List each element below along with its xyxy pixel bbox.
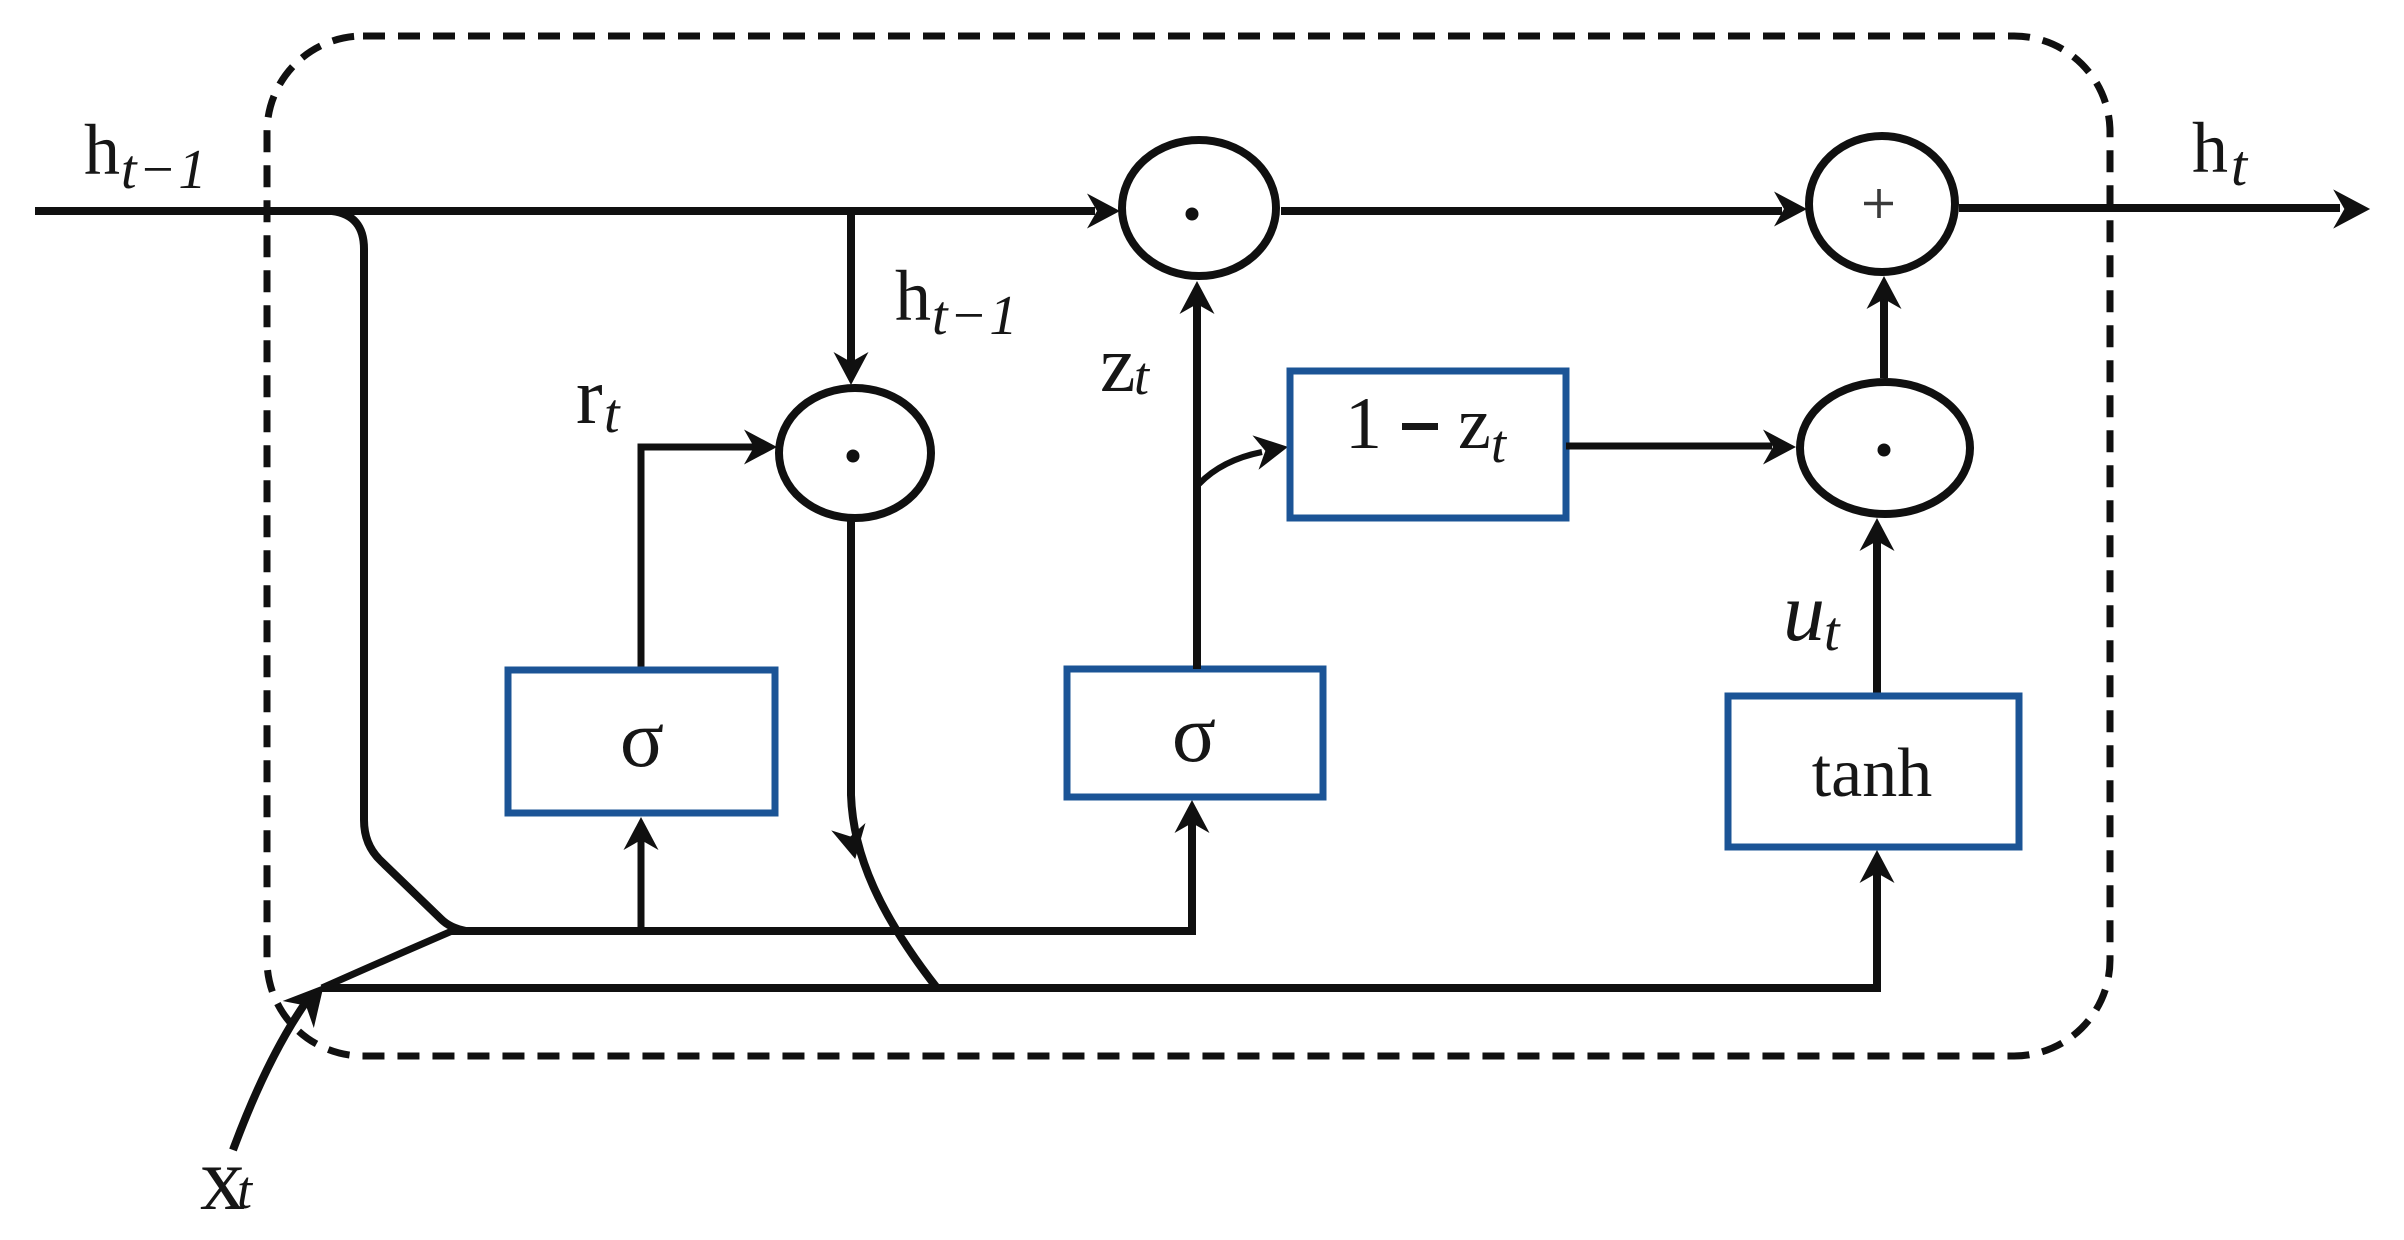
wire rt elbow from sigma1 to r ellipse	[641, 447, 756, 670]
svg-text:t−1: t−1	[121, 139, 208, 201]
arrowhead into plus circle	[1774, 192, 1807, 227]
svg-text:h: h	[2192, 108, 2228, 188]
node right multiply ellipse	[1800, 382, 1970, 514]
node dot circle top	[1122, 140, 1276, 276]
wire zt vertical from sigma2 to dot circle	[1193, 303, 1201, 669]
wire tanh to right ellipse	[1873, 540, 1881, 696]
dot of right multiply ellipse	[1878, 444, 1891, 457]
svg-text:z: z	[1458, 383, 1491, 465]
svg-text:σ: σ	[620, 693, 664, 784]
dot of r multiply ellipse	[847, 450, 860, 463]
arrowhead into sigma2 bottom	[1175, 800, 1210, 833]
svg-text:u: u	[1783, 566, 1825, 659]
wire upper bottom bus to sigma2	[450, 822, 1192, 931]
wire xt branch to upper bus	[322, 931, 452, 988]
arrowhead into sigma1	[624, 817, 659, 850]
svg-text:r: r	[576, 353, 603, 441]
svg-text:t: t	[2231, 133, 2249, 198]
plus sign	[1864, 189, 1893, 218]
arrowhead xt	[283, 972, 340, 1028]
node plus circle	[1809, 136, 1955, 272]
wire right ellipse to plus circle	[1880, 298, 1888, 378]
node r multiply ellipse	[779, 388, 931, 518]
wire h t-1 vertical branch into r ellipse	[847, 214, 855, 364]
arrowhead into tanh bottom	[1860, 850, 1895, 883]
arrowhead on r output curve	[831, 823, 872, 863]
tanh box	[1728, 696, 2019, 847]
arrowhead into right ellipse	[1763, 430, 1796, 465]
svg-text:h: h	[84, 110, 120, 190]
arrowhead into plus circle bottom	[1867, 276, 1902, 309]
dot of top circle	[1186, 208, 1199, 221]
svg-text:1: 1	[1345, 383, 1382, 465]
wire xt input curve	[233, 1002, 306, 1150]
sigma box 2	[1067, 669, 1323, 797]
svg-text:z: z	[1100, 321, 1136, 409]
svg-text:t: t	[604, 383, 621, 445]
arrowhead into right ellipse bottom	[1860, 518, 1895, 551]
sigma box 1	[508, 670, 775, 813]
svg-text:t: t	[237, 1160, 254, 1220]
svg-text:t: t	[1824, 601, 1841, 663]
arrowhead rt into r ellipse	[744, 430, 777, 465]
svg-text:t−1: t−1	[932, 285, 1019, 347]
wire lower bus to tanh	[322, 872, 1877, 988]
wire main h line middle segment	[1281, 207, 1782, 215]
arrowhead into dot circle	[1087, 194, 1120, 229]
arrowhead zt into dot circle	[1180, 281, 1215, 314]
box 1-zt	[1290, 371, 1566, 518]
svg-text:t: t	[1134, 346, 1151, 406]
svg-text:tanh: tanh	[1812, 735, 1933, 812]
arrowhead into 1-zt box	[1252, 430, 1291, 470]
wire branch curve to 1-zt box	[1199, 452, 1262, 484]
arrowhead into r ellipse top	[834, 352, 869, 385]
svg-text:σ: σ	[1172, 688, 1216, 779]
svg-text:t: t	[1491, 414, 1508, 474]
wire r ellipse output curve to lower bus	[851, 518, 937, 988]
wire main h line left segment	[35, 207, 1095, 215]
arrowhead output ht	[2333, 189, 2370, 228]
dashed cell boundary	[267, 36, 2110, 1056]
wire main h line right segment	[1959, 204, 2340, 212]
wire branch from h line down to lower-left bus	[332, 211, 466, 931]
svg-text:h: h	[895, 256, 931, 336]
wire 1-zt to right ellipse	[1566, 443, 1772, 450]
arrow up into sigma1	[638, 838, 645, 931]
